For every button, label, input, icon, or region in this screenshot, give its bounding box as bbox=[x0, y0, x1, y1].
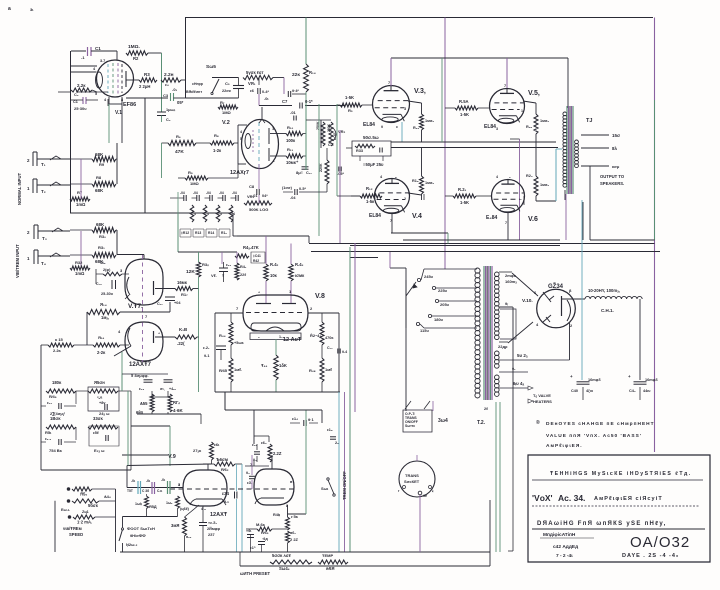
svg-text:2 2Ζ: 2 2Ζ bbox=[290, 537, 299, 542]
svg-text:V.4: V.4 bbox=[412, 213, 422, 220]
svg-text:6ᵢυ 4ₐ: 6ᵢυ 4ₐ bbox=[513, 381, 525, 386]
svg-text:Я₁₆: Я₁₆ bbox=[98, 335, 105, 340]
svg-text:Я5₅: Я5₅ bbox=[80, 492, 87, 497]
wire V1 grid stubs bbox=[71, 65, 98, 67]
wire blue x236 drop bbox=[236, 464, 238, 491]
svg-text:22κ: 22κ bbox=[292, 72, 300, 78]
svg-text:2ℓ: 2ℓ bbox=[484, 407, 488, 411]
svg-text:ЅσϲКЕT: ЅσϲКЕT bbox=[404, 479, 420, 484]
svg-text:3: 3 bbox=[404, 107, 406, 111]
wire y245 bus bbox=[350, 245, 560, 247]
wire x513 drop bbox=[512, 430, 514, 551]
svg-text:Я5Д: Я5Д bbox=[149, 505, 157, 509]
resistor R30 68K bbox=[70, 229, 92, 231]
svg-text:T.2.: T.2. bbox=[477, 420, 486, 426]
wire drop V5 drive bbox=[444, 18, 446, 270]
svg-text:C7: C7 bbox=[282, 99, 288, 104]
wire choke left vert bbox=[581, 200, 583, 380]
svg-text:R7: R7 bbox=[77, 190, 83, 195]
svg-text:C₁₅: C₁₅ bbox=[96, 282, 102, 286]
svg-text:50σ.5ω: 50σ.5ω bbox=[363, 135, 379, 140]
wire V7 center dash bbox=[142, 255, 144, 362]
wire V7 grid from jacks bbox=[116, 230, 118, 255]
V7a anode bar bbox=[153, 281, 155, 295]
svg-text:DEнOYEЅ ϲНAНGΕ пЕ ϲНмрпНЕНT: DEнOYEЅ ϲНAНGΕ пЕ ϲНмрпНЕНT bbox=[546, 421, 655, 427]
svg-text:1мℓ.: 1мℓ. bbox=[234, 367, 242, 372]
V9 center dash bbox=[170, 488, 296, 490]
svg-text:E₄84: E₄84 bbox=[486, 215, 497, 221]
svg-text:RГₙ: RГₙ bbox=[173, 400, 180, 405]
svg-text:C₁₂: C₁₂ bbox=[328, 143, 334, 147]
svg-text:Vℓ.: Vℓ. bbox=[211, 273, 217, 278]
triode V9a envelope bbox=[183, 470, 227, 506]
wire normal to V7 junction bbox=[70, 212, 233, 214]
transformer socket bbox=[399, 461, 435, 497]
svg-text:V.1: V.1 bbox=[115, 110, 122, 116]
svg-text:С.ɩɩ: С.ɩɩ bbox=[157, 489, 162, 493]
svg-text:4: 4 bbox=[207, 212, 209, 216]
resistor R47 470K bbox=[320, 322, 324, 345]
wire left edge trem bbox=[41, 405, 46, 407]
svg-text:θ: θ bbox=[381, 125, 383, 129]
svg-text:C₄: C₄ bbox=[166, 118, 171, 122]
wire OT left box bbox=[555, 149, 557, 201]
wire V8 bus to y410 bbox=[224, 392, 226, 410]
svg-text:25-30υ: 25-30υ bbox=[101, 292, 114, 296]
foot switch wire bbox=[122, 517, 124, 529]
svg-text:Ȓ2⁃4₃: Ȓ2⁃4₃ bbox=[310, 333, 321, 338]
resistor R43 100K bbox=[289, 264, 293, 281]
wire bus y236 bbox=[233, 235, 237, 237]
svg-text:8μ≡: 8μ≡ bbox=[296, 170, 304, 175]
resistor R41a 22 bbox=[235, 263, 239, 280]
wire right border bbox=[654, 18, 656, 453]
svg-text:ε.2₁: ε.2₁ bbox=[203, 346, 210, 350]
svg-text:R14: R14 bbox=[208, 231, 214, 235]
svg-text:0-5*: 0-5* bbox=[299, 187, 306, 191]
capacitor C1 bbox=[71, 50, 86, 52]
svg-text:V.8: V.8 bbox=[315, 293, 325, 300]
svg-text:Sω5: Sω5 bbox=[206, 64, 216, 70]
V9b boat bbox=[261, 497, 284, 499]
svg-text:1мₐ,: 1мₐ, bbox=[101, 315, 109, 320]
svg-text:2.2н: 2.2н bbox=[164, 72, 174, 78]
wire C20 R41 tops bbox=[221, 252, 223, 264]
svg-text:22σк: 22σк bbox=[222, 89, 231, 93]
V8 bottom boat bbox=[251, 323, 301, 331]
svg-text:2: 2 bbox=[404, 197, 406, 201]
svg-text:₄: ₄ bbox=[158, 330, 160, 335]
wire V7a out bbox=[155, 288, 175, 290]
svg-text:C1: C1 bbox=[95, 46, 101, 51]
svg-text:1-5K: 1-5K bbox=[460, 112, 469, 117]
svg-text:C₁₁: C₁₁ bbox=[306, 171, 312, 175]
wire V8 right bbox=[308, 312, 339, 314]
svg-text:R⁄6₅: R⁄6₅ bbox=[261, 530, 269, 535]
svg-text:Ѧ55: Ѧ55 bbox=[139, 401, 148, 406]
svg-text:1Вσĸ: 1Вσĸ bbox=[50, 416, 61, 421]
svg-text:ε₃₃: ε₃₃ bbox=[139, 387, 145, 391]
svg-text:C 3б: C 3б bbox=[142, 489, 149, 493]
triode V7b envelope bbox=[125, 322, 163, 361]
svg-text:R1₅: R1₅ bbox=[412, 179, 419, 183]
svg-text:(1σσ): (1σσ) bbox=[282, 186, 293, 190]
svg-text:5σσĸ ʌσℓ: 5σσĸ ʌσℓ bbox=[272, 553, 291, 558]
0v bracket box bbox=[500, 309, 516, 339]
svg-text:5υ 2ₐ: 5υ 2ₐ bbox=[517, 353, 528, 358]
resistor R18 12K bbox=[196, 262, 200, 277]
voltage selector lever bbox=[405, 280, 407, 328]
svg-text:VR₂: VR₂ bbox=[338, 129, 346, 134]
wire tone verticals long bbox=[318, 104, 320, 236]
svg-text:-0ɩ: -0ɩ bbox=[146, 479, 150, 483]
svg-text:225υ: 225υ bbox=[438, 288, 448, 293]
svg-text:Еω.ɩ.: Еω.ɩ. bbox=[61, 508, 70, 512]
resistor R42 10K bbox=[264, 264, 268, 281]
wire x201 drop bbox=[200, 414, 202, 424]
svg-text:C₄: C₄ bbox=[74, 93, 79, 97]
svg-text:DAYЕ . 2Ѕ -4 -4₀: DAYЕ . 2Ѕ -4 -4₀ bbox=[622, 553, 679, 559]
svg-text:EL84: EL84 bbox=[363, 122, 375, 128]
svg-text:2ᵤ: 2ᵤ bbox=[335, 441, 339, 445]
svg-text:₅: ₅ bbox=[395, 175, 397, 179]
svg-text:12K: 12K bbox=[186, 269, 195, 275]
svg-text:c: c bbox=[396, 125, 398, 129]
resistor R9 68K upper bbox=[70, 158, 92, 160]
svg-text:1mΩ: 1mΩ bbox=[76, 202, 86, 207]
svg-text:1μωₙ: 1μωₙ bbox=[166, 108, 176, 112]
wire R55 R54 bottoms bbox=[151, 412, 153, 414]
svg-text:754 Вĸ: 754 Вĸ bbox=[49, 448, 63, 453]
svg-text:33σĸ: 33σĸ bbox=[93, 416, 104, 421]
svg-text:R₂₄: R₂₄ bbox=[413, 126, 419, 130]
svg-text:4: 4 bbox=[194, 212, 196, 216]
wire T2 bottom to GZ34 heater bbox=[499, 359, 570, 361]
wire V4 bottom bbox=[391, 214, 393, 233]
V8 anode bars bbox=[256, 303, 271, 305]
svg-text:₄: ₄ bbox=[258, 289, 260, 294]
wire V5 plate bbox=[506, 58, 508, 88]
svg-text:V.3,: V.3, bbox=[414, 88, 426, 95]
transformer T2 secondary 5v bbox=[495, 351, 500, 356]
svg-text:TREM ON/OFF: TREM ON/OFF bbox=[342, 471, 347, 500]
transformer T2 primary winding bbox=[475, 268, 480, 273]
svg-text:R₁₂: R₁₂ bbox=[366, 186, 373, 191]
svg-text:ε₂₀: ε₂₀ bbox=[226, 263, 231, 267]
resistor 100ohm V4 R15 bbox=[408, 193, 422, 195]
svg-text:Я₁₄: Я₁₄ bbox=[100, 302, 107, 307]
wire V1 top pin bbox=[116, 51, 118, 60]
wire top HT rail bbox=[185, 17, 653, 19]
wire cap C40 C41 bottoms bbox=[582, 387, 584, 400]
wire trem left bus bbox=[40, 345, 42, 470]
resistor R44 450K bbox=[229, 322, 233, 345]
wire bus y243 bbox=[309, 243, 655, 245]
resistor R55 68K bbox=[150, 394, 154, 412]
wire trem to V9 bbox=[131, 425, 170, 427]
V8 pin box bbox=[250, 333, 301, 340]
svg-text:5γσк ℓσг: 5γσк ℓσг bbox=[246, 70, 264, 75]
capacitor C34 box bbox=[89, 426, 119, 446]
svg-text:VIB/TREM INPUT: VIB/TREM INPUT bbox=[15, 244, 20, 278]
pentode V3 EL84 bbox=[373, 86, 410, 123]
wire V8 left bbox=[215, 312, 243, 314]
svg-text:R⁄45: R⁄45 bbox=[219, 368, 228, 373]
resistor R51b 1.2M bbox=[68, 516, 71, 519]
svg-text:θ·4*: θ·4* bbox=[292, 89, 299, 93]
svg-text:100к: 100к bbox=[286, 138, 296, 143]
svg-text:κσμ: κσμ bbox=[612, 164, 620, 169]
svg-text:R4ḅ: R4ḅ bbox=[273, 513, 281, 517]
wire grn mid drop bbox=[441, 58, 443, 142]
svg-text:R5ɩ: R5ɩ bbox=[45, 430, 52, 435]
svg-text:ε1₅: ε1₅ bbox=[327, 428, 333, 432]
V7a cathode arc bbox=[127, 277, 130, 295]
wire bus y251 bbox=[311, 251, 660, 253]
svg-text:7: 7 bbox=[504, 84, 506, 88]
resistor R67 22K bbox=[286, 531, 290, 543]
svg-text:ε5ℓ: ε5ℓ bbox=[93, 431, 99, 435]
svg-text:я⁄6Я: я⁄6Я bbox=[326, 566, 334, 571]
label 0v tap bbox=[499, 306, 512, 308]
svg-text:1: 1 bbox=[521, 109, 523, 113]
wire V9a top pin bbox=[207, 464, 209, 470]
svg-text:1δK: 1δK bbox=[279, 363, 287, 368]
svg-text:245υ: 245υ bbox=[424, 274, 434, 279]
wire green B+ right bbox=[654, 100, 656, 240]
svg-text:C4₃: C4₃ bbox=[629, 389, 636, 393]
wire x339 drop bbox=[338, 313, 340, 392]
svg-text:TRANS: TRANS bbox=[405, 473, 419, 478]
resistor 2.2K R4 bbox=[161, 78, 181, 82]
svg-text:-04: -04 bbox=[219, 191, 224, 195]
svg-text:Aϲ. 34.: Aϲ. 34. bbox=[558, 493, 585, 503]
transformer TJ primary winding bbox=[563, 112, 567, 116]
svg-text:MпдiφiϲATiпН: MпдiφiϲATiпН bbox=[543, 532, 576, 538]
resistor R46 15K bbox=[274, 355, 278, 380]
transformer T2 core bbox=[483, 266, 485, 400]
wire selector to switch bbox=[405, 328, 407, 411]
svg-text:1MΩ: 1MΩ bbox=[190, 181, 200, 186]
wire x145 ground return bbox=[144, 98, 146, 213]
wire R11 to V4 riser bbox=[337, 195, 360, 197]
pentode V1 EF86 bbox=[97, 60, 134, 97]
svg-text:R13: R13 bbox=[195, 231, 201, 235]
svg-text:+: + bbox=[570, 374, 573, 379]
pentode V4 EL84 bbox=[375, 179, 410, 214]
svg-text:OUTPUT TO: OUTPUT TO bbox=[600, 174, 625, 179]
wire choke to right bbox=[562, 298, 585, 300]
svg-text:1ωķ: 1ωķ bbox=[135, 502, 142, 506]
svg-text:V.9: V.9 bbox=[168, 454, 176, 460]
svg-text:₆: ₆ bbox=[273, 159, 275, 163]
svg-text:(ц6ℓ): (ц6ℓ) bbox=[180, 507, 190, 511]
svg-text:ε6: ε6 bbox=[250, 89, 254, 93]
wire x254 drop to C36 bbox=[253, 410, 255, 444]
resistor R45 1M bbox=[229, 358, 233, 382]
svg-text:-04: -04 bbox=[232, 191, 237, 195]
svg-text:ϲНпрр: ϲНпрр bbox=[192, 82, 203, 86]
svg-text:27ₐĸ: 27ₐĸ bbox=[193, 448, 202, 453]
svg-text:8λ: 8λ bbox=[612, 146, 618, 151]
svg-text:≡θɩ: ≡θɩ bbox=[246, 529, 252, 533]
resistor R3 anode bbox=[126, 79, 139, 81]
wire C10 row bbox=[283, 191, 293, 193]
capacitor ladder C row bbox=[183, 195, 185, 201]
wire drop 22K feed bbox=[305, 18, 307, 65]
wire V2 top pin bbox=[261, 107, 263, 120]
svg-text:05*: 05* bbox=[177, 100, 184, 105]
svg-text:R2₃: R2₃ bbox=[526, 174, 533, 178]
capacitor C7 0-1 bbox=[259, 105, 292, 107]
svg-text:≡50μF 25υ: ≡50μF 25υ bbox=[363, 162, 384, 167]
svg-text:K₁Β: K₁Β bbox=[179, 327, 187, 332]
svg-text:C1: C1 bbox=[73, 100, 78, 104]
wire x322 drop bbox=[321, 410, 323, 423]
svg-text:2З7: 2З7 bbox=[208, 533, 215, 537]
svg-text:4: 4 bbox=[220, 212, 222, 216]
svg-text:я6₇: я6₇ bbox=[290, 531, 296, 535]
svg-text:1мσₐ: 1мσₐ bbox=[425, 181, 435, 185]
svg-text:Ζц1: Ζц1 bbox=[82, 510, 89, 514]
wire VR2 tone links bbox=[311, 119, 331, 121]
svg-text:АмРℓɩφɩЕЯ.: АмРℓɩφɩЕЯ. bbox=[546, 443, 583, 449]
wire V9b cathode down bbox=[287, 505, 289, 517]
wire cyan x242 drop bbox=[241, 464, 243, 552]
svg-text:7: 7 bbox=[505, 221, 507, 225]
triode V9b envelope bbox=[254, 469, 294, 505]
svg-text:16mφδ: 16mφδ bbox=[645, 378, 658, 382]
resistor R14 22K bbox=[304, 64, 309, 92]
svg-text:ε₂.₂: ε₂.₂ bbox=[45, 437, 52, 441]
svg-text:1: 1 bbox=[272, 127, 274, 131]
resistor R24 100ohm V3 bbox=[408, 101, 422, 103]
svg-text:4 ₅: 4 ₅ bbox=[201, 507, 206, 511]
svg-text:VR₃: VR₃ bbox=[247, 194, 255, 199]
transformer T2 secondary 6.3v bbox=[495, 375, 500, 380]
svg-text:θ·1: θ·1 bbox=[308, 417, 314, 422]
svg-text:47K: 47K bbox=[175, 149, 184, 155]
svg-text:θН/σФФ: θН/σФФ bbox=[130, 533, 146, 538]
svg-text:5: 5 bbox=[95, 92, 97, 96]
svg-text:AмРℓɩφɩЕЯ ϲiЯϲуiT: AмРℓɩφɩЕЯ ϲiЯϲуiT bbox=[594, 496, 663, 502]
svg-text:VЯ₁: VЯ₁ bbox=[248, 81, 256, 86]
svg-text:BЯɩℓℓɩгнт: BЯɩℓℓɩгнт bbox=[186, 90, 202, 94]
wire grn drop below V1 bbox=[108, 104, 110, 143]
svg-text:≡ε.З₇: ≡ε.З₇ bbox=[208, 521, 217, 525]
wire V7b cathode col bbox=[121, 352, 123, 391]
selector tap 180v bbox=[428, 314, 431, 317]
wire hum pot drops bbox=[359, 156, 361, 161]
svg-text:R₄₈: R₄₈ bbox=[309, 368, 316, 373]
triode V7a envelope bbox=[125, 259, 163, 305]
wire V9 pins down bbox=[250, 535, 252, 553]
wire V7b out bbox=[155, 336, 175, 338]
wire ladder to depth bbox=[170, 197, 178, 199]
svg-text:R3ₙ: R3ₙ bbox=[202, 262, 209, 267]
svg-text:C3: C3 bbox=[163, 93, 169, 98]
svg-text:R.4₃: R.4₃ bbox=[295, 262, 304, 267]
svg-text:-04: -04 bbox=[206, 191, 211, 195]
wire V9a grid network bbox=[127, 464, 212, 466]
wire vib jack bus bbox=[80, 231, 82, 266]
wire V2 cathode links bbox=[208, 177, 238, 179]
wire tap 15ohm bbox=[581, 134, 609, 136]
svg-text:-0₁: -0₁ bbox=[172, 87, 178, 92]
wire V3 plate bbox=[390, 58, 392, 86]
wire V1 cathode link bbox=[58, 91, 70, 93]
wire x390 riser power bbox=[389, 252, 391, 268]
wire selector feed top bbox=[405, 268, 407, 280]
selector tap 245v bbox=[417, 278, 420, 281]
wire jack bus vertical bbox=[80, 159, 82, 199]
svg-text:68K: 68K bbox=[95, 152, 104, 157]
svg-text:68K: 68K bbox=[95, 188, 104, 193]
transformer T2 secondary HT bbox=[495, 272, 500, 277]
svg-text:V.6: V.6 bbox=[528, 216, 538, 223]
svg-text:ε₃₁: ε₃₁ bbox=[47, 401, 53, 405]
svg-text:1MΩ.: 1MΩ. bbox=[128, 44, 140, 50]
svg-text:0-4*: 0-4* bbox=[262, 90, 269, 94]
svg-text:12 АυŦ: 12 АυŦ bbox=[283, 337, 302, 343]
svg-text:®: ® bbox=[536, 419, 540, 426]
capacitor C17 bbox=[165, 296, 175, 298]
svg-text:4·6K: 4·6K bbox=[173, 408, 184, 413]
wire OT com down bbox=[589, 166, 591, 240]
svg-text:16mφδ: 16mφδ bbox=[588, 378, 601, 382]
wire bottom loop bbox=[239, 552, 241, 566]
svg-text:ε1⁵: ε1⁵ bbox=[250, 546, 256, 550]
wire V2 left bracket bbox=[237, 125, 239, 164]
svg-text:1мσₐ: 1мσₐ bbox=[425, 119, 435, 123]
resistor R54 4-8K bbox=[168, 394, 172, 412]
svg-text:Ѣ6σм: Ѣ6σм bbox=[216, 457, 228, 462]
wire HT top diagonal to GZ34 bbox=[512, 273, 538, 296]
svg-text:V.10.: V.10. bbox=[522, 298, 533, 304]
svg-text:R4ₐ.47K: R4ₐ.47K bbox=[243, 245, 259, 250]
svg-text:VALUE ппЯ 'VпX. Aϲ50 'ВАSS': VALUE ппЯ 'VпX. Aϲ50 'ВАSS' bbox=[546, 433, 642, 439]
svg-text:220K: 220K bbox=[319, 163, 323, 172]
svg-text:3: 3 bbox=[178, 483, 180, 487]
svg-text:4: 4 bbox=[233, 212, 235, 216]
svg-text:12АХŦ: 12АХŦ bbox=[210, 512, 228, 518]
trem box upper bbox=[88, 387, 119, 411]
resistor 100ohm V5 bbox=[523, 101, 536, 103]
svg-text:R8: R8 bbox=[96, 175, 102, 180]
svg-text:ŦEННiНGЅ МуЅɩϲКЕ iНDуЅTЯiЕЅ ℓT: ŦEННiНGЅ МуЅɩϲКЕ iНDуЅTЯiЕЅ ℓTд. bbox=[550, 471, 692, 477]
svg-text:Ŧ₄₆: Ŧ₄₆ bbox=[261, 363, 268, 368]
svg-text:V.Ŧ7.: V.Ŧ7. bbox=[128, 303, 143, 310]
svg-text:C₁₇: C₁₇ bbox=[157, 302, 163, 306]
wire x128 from trem bbox=[127, 391, 129, 466]
svg-text:1-5K: 1-5K bbox=[345, 95, 354, 100]
svg-text:'VοX': 'VοX' bbox=[532, 493, 553, 503]
resistor R17 15K bbox=[175, 287, 193, 291]
wire y410 horizontal bbox=[225, 409, 322, 411]
svg-text:ωИTН PRESET: ωИTН PRESET bbox=[240, 571, 270, 576]
svg-text:θе: θе bbox=[423, 494, 427, 498]
svg-text:5: 5 bbox=[240, 137, 242, 141]
resistor R8 68K lower bbox=[70, 183, 92, 185]
svg-text:ε6₃: ε6₃ bbox=[261, 441, 267, 445]
wire heater drops bbox=[495, 402, 497, 552]
svg-text:2.2к: 2.2к bbox=[77, 83, 86, 88]
svg-text:R33: R33 bbox=[356, 149, 363, 153]
wire long bottom rail bbox=[120, 551, 490, 553]
svg-text:1-5κ: 1-5κ bbox=[366, 199, 375, 204]
svg-text:θᵣ: θᵣ bbox=[505, 301, 508, 306]
resistor R31 68K bbox=[70, 254, 92, 256]
